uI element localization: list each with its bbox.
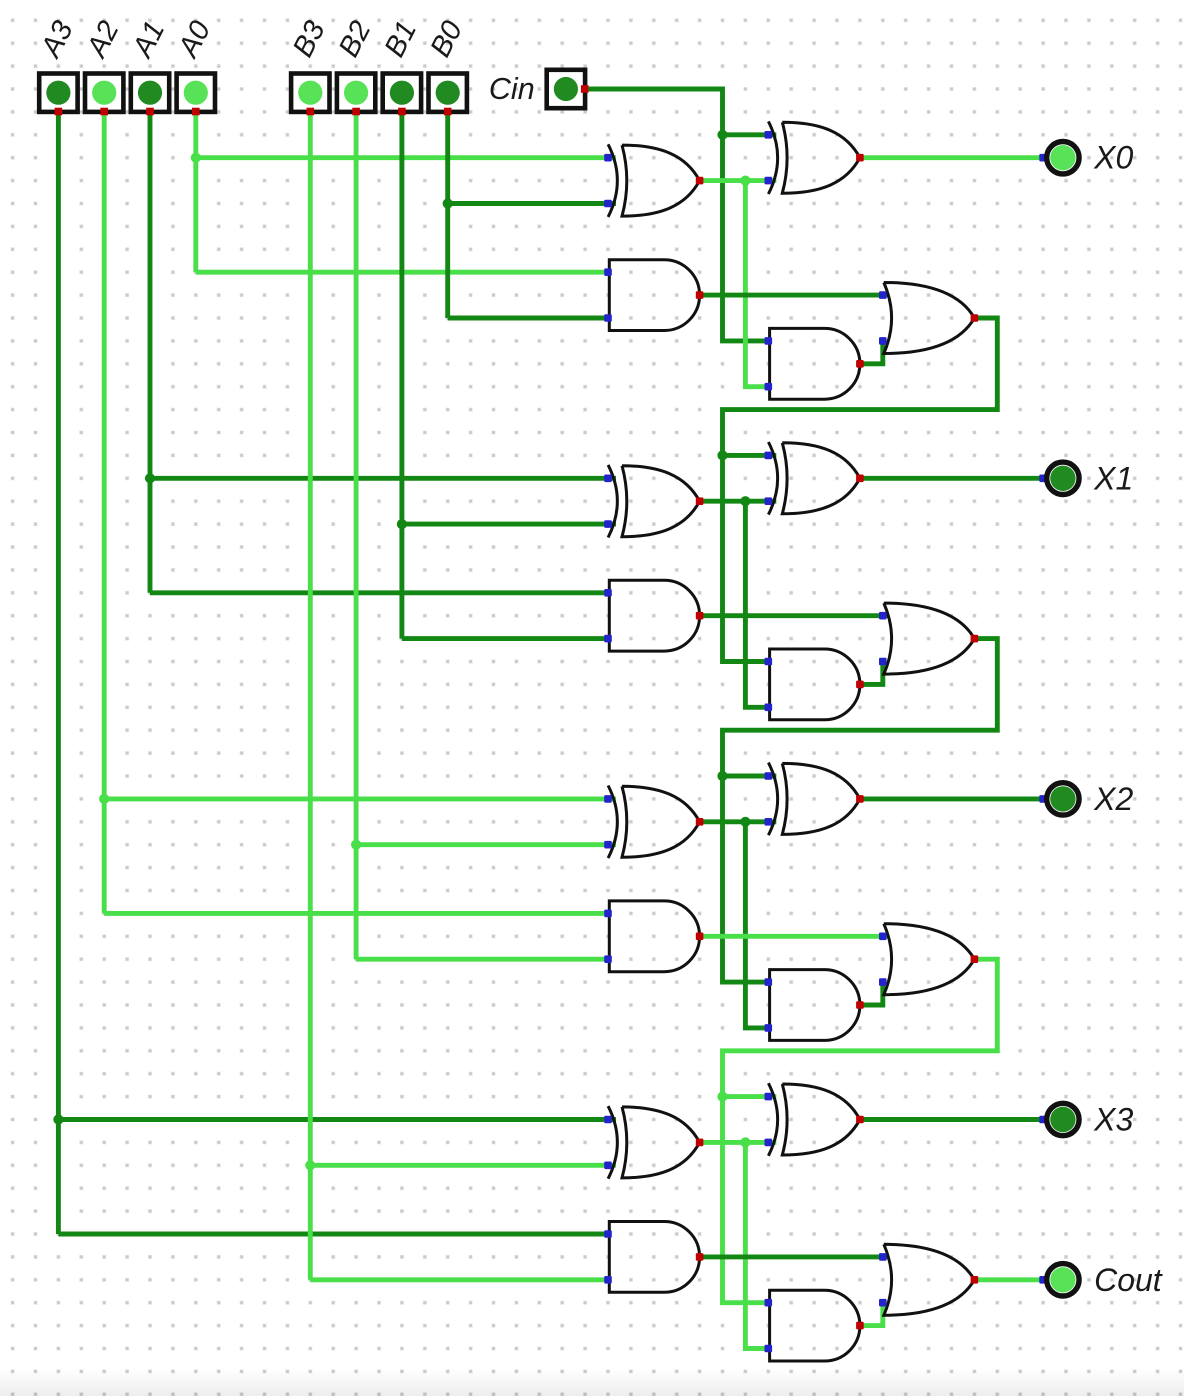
wire net C1 (carry) — [723, 318, 998, 662]
junction node Cin-tap — [717, 130, 727, 140]
xor-gate U5 (A1 xor B1) — [604, 465, 703, 538]
input pin B0 — [424, 16, 469, 115]
output pin X1 — [1039, 460, 1133, 496]
output pin X2 — [1039, 781, 1133, 817]
wire net A1 — [150, 112, 616, 593]
svg-text:Cin: Cin — [489, 72, 535, 106]
input pin B3 — [287, 16, 332, 115]
or-gate U19 (carry out bit 2) — [879, 924, 978, 995]
junction node C2-tap — [717, 771, 727, 781]
or-gate U17 (carry out bit 0) — [879, 283, 978, 354]
input pin A2 — [80, 16, 126, 115]
junction node B2-tap — [351, 840, 361, 850]
junction node B1-tap — [397, 519, 407, 529]
junction node A2-tap — [99, 794, 109, 804]
and-gate U15 (A3 and B3) — [604, 1222, 703, 1293]
input pin A1 — [126, 16, 172, 115]
and-gate U7 (A1 and B1) — [604, 580, 703, 651]
junction node A1-tap — [145, 473, 155, 483]
wire net P2 (and2 out) — [860, 982, 883, 1005]
input pin A3 — [34, 16, 80, 115]
input pin A0 — [172, 16, 218, 115]
wire net S2 (A2 xor B2) — [700, 822, 777, 1028]
wire net A3 — [58, 112, 616, 1234]
wire net G3 (A3 and B3) — [700, 1254, 889, 1259]
wire net X1-out — [860, 476, 1043, 481]
wire net S1 (A1 xor B1) — [700, 501, 777, 707]
junction node C3-tap — [717, 1092, 727, 1102]
junction node S2-tap — [740, 817, 750, 827]
wire net S3 (A3 xor B3) — [700, 1142, 777, 1348]
wire net Cin — [585, 89, 776, 341]
xor-gate U1 (A0 xor B0) — [604, 144, 703, 217]
junction node A0-tap — [191, 153, 201, 163]
wire net G1 (A1 and B1) — [700, 613, 889, 618]
svg-text:X0: X0 — [1093, 140, 1133, 176]
and-gate U3 (A0 and B0) — [604, 260, 703, 331]
wire net C3 (carry) — [723, 959, 998, 1302]
or-gate U20 (carry out bit 3) — [879, 1244, 978, 1315]
svg-text:Cout: Cout — [1094, 1262, 1163, 1298]
wire net B2 — [356, 112, 616, 959]
wire net X0-out — [860, 155, 1043, 160]
wire net B1 — [402, 112, 616, 639]
or-gate U18 (carry out bit 1) — [879, 603, 978, 674]
xor-gate U14 (sum X3) — [765, 1083, 864, 1156]
input pin Cin — [489, 70, 589, 108]
wire net G2 (A2 and B2) — [700, 934, 889, 939]
wire net P0 (and2 out) — [860, 341, 883, 364]
junction node B0-tap — [443, 198, 453, 208]
and-gate U8 (carry propagate) — [765, 649, 864, 720]
output pin Cout — [1039, 1262, 1163, 1298]
junction node S0-tap — [740, 176, 750, 186]
xor-gate U6 (sum X1) — [765, 442, 864, 515]
xor-gate U9 (A2 xor B2) — [604, 786, 703, 859]
input pin B1 — [379, 16, 424, 115]
wire net A2 — [104, 112, 616, 914]
output pin X0 — [1039, 140, 1133, 176]
junction node S3-tap — [740, 1137, 750, 1147]
wire net Cout-out — [974, 1277, 1043, 1282]
and-gate U16 (carry propagate) — [765, 1290, 864, 1361]
wire net C2 (carry) — [723, 639, 998, 983]
xor-gate U13 (A3 xor B3) — [604, 1106, 703, 1179]
junction node A3-tap — [53, 1114, 63, 1124]
and-gate U4 (carry propagate) — [765, 328, 864, 399]
xor-gate U2 (sum X0) — [765, 121, 864, 194]
wire net G0 (A0 and B0) — [700, 293, 889, 298]
wire net B3 — [310, 112, 616, 1280]
wire net S0 (A0 xor B0) — [700, 181, 777, 387]
junction node S1-tap — [740, 496, 750, 506]
junction node B3-tap — [305, 1160, 315, 1170]
and-gate U11 (A2 and B2) — [604, 901, 703, 972]
input pin B2 — [333, 16, 378, 115]
wire net A0 — [196, 112, 616, 272]
wire net X3-out — [860, 1117, 1043, 1122]
wire net X2-out — [860, 796, 1043, 801]
svg-text:X2: X2 — [1093, 781, 1133, 817]
svg-text:X3: X3 — [1093, 1102, 1133, 1138]
output pin X3 — [1039, 1102, 1133, 1138]
wire net P3 (and2 out) — [860, 1303, 883, 1326]
svg-text:X1: X1 — [1093, 460, 1133, 496]
and-gate U12 (carry propagate) — [765, 970, 864, 1041]
junction node C1-tap — [717, 450, 727, 460]
wire net B0 — [448, 112, 616, 318]
xor-gate U10 (sum X2) — [765, 763, 864, 836]
wire net P1 (and2 out) — [860, 662, 883, 685]
